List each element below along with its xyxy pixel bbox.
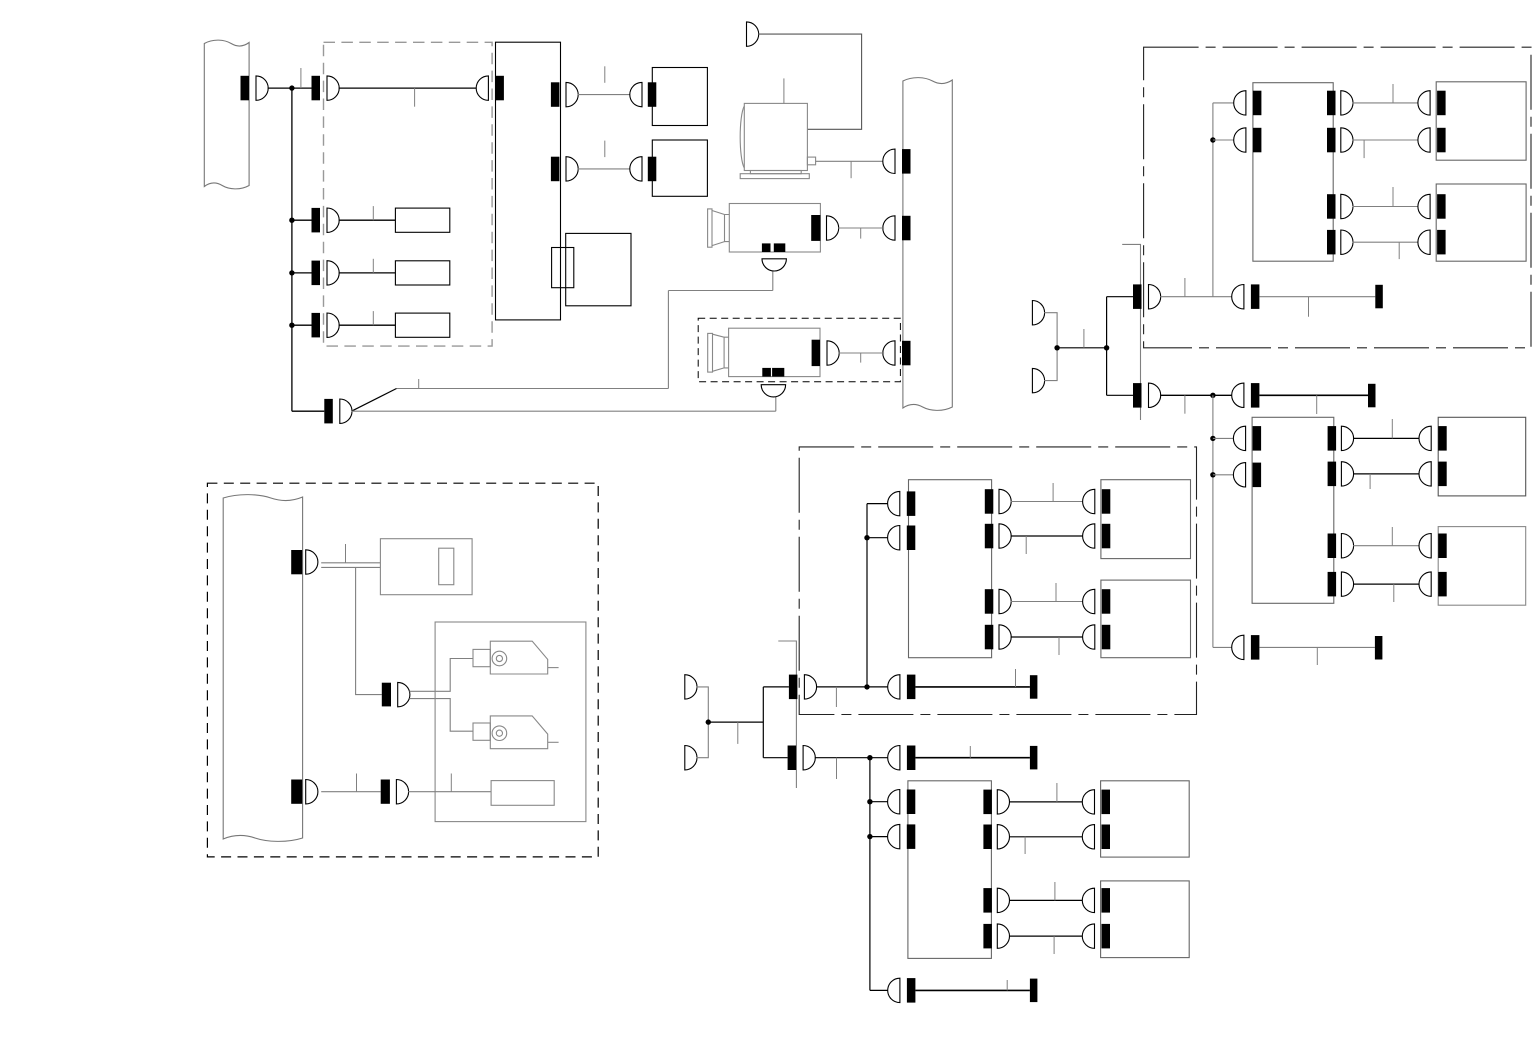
wire to TB4 pin1 [870,801,888,803]
junction TB2 pin2 [1210,472,1215,477]
connector TB1 right [1327,194,1336,219]
connector TB3 right [985,524,994,549]
stub above motor [783,78,785,103]
wire P1a to box [578,94,631,96]
wire tick [969,746,971,758]
wire tick [850,161,852,178]
junction node N [867,755,872,760]
wire M2 [815,757,890,759]
module box MC [395,261,449,285]
wire tick [860,353,862,363]
junction node G [1104,345,1109,350]
connector J1 on trunk W1 [241,76,250,101]
wire tick [1056,783,1058,802]
connector M1a (branch) [789,675,798,700]
wire tick [604,66,606,83]
connector Y2b [1251,383,1260,408]
wire T2 to sensor S1 [409,659,473,692]
wire to TB2 pin1 [1213,437,1234,439]
connector TB2 right [1328,462,1337,487]
junction TB2 pin1 [1210,436,1215,441]
wire TB1 to box BB pin1 [1353,206,1419,208]
connector on BC pin1 [1438,426,1447,451]
connector TB3 right [985,625,994,650]
connector TB1 left pin1 [1253,91,1262,116]
wire node A to connector J4 [292,410,324,412]
cable trunk W1 (torn bus bar, top left) [204,40,249,189]
wire TB4 to box BG pin1 [1009,801,1083,803]
wire tick [1398,242,1400,259]
wire to TB3 pin1 [867,503,888,505]
device box BG [1101,781,1190,857]
terminal lug M1 [1030,675,1038,699]
wire tick [345,544,347,563]
wire CAM1 to trunk W2 [838,227,884,229]
wire tick [1053,936,1055,954]
bus node G vertical [1106,297,1108,396]
wire T2 to sensor S2 [409,699,473,732]
junction node L [864,684,869,689]
terminal box TB2 [1252,417,1334,603]
cable M2 tail [915,757,1030,759]
wire TB4 to box BG pin2 [1009,836,1083,838]
device box BB [1436,184,1526,261]
connector TB1 left pin2 [1253,128,1262,153]
cable trunk W2 (torn bus bar, top middle-right) [903,78,952,411]
bus node H down [1212,395,1214,647]
wire tick [1052,483,1054,502]
wire tick [372,206,374,220]
wire P1b to box [578,168,631,170]
wire to TB2 pin2 [1213,474,1234,476]
device box BH [1101,881,1190,958]
dashed harness boundary (gray) [324,42,493,346]
connector T2 [382,683,391,707]
CAM1 bottom contact [762,243,771,252]
device box BC [1438,417,1526,496]
wire TB1 to box BA pin1 [1353,102,1419,104]
screen line S1 [1122,244,1140,420]
terminal box TB1 [1253,83,1333,262]
device box BA [1436,82,1526,160]
connector on BG pin2 [1102,825,1111,850]
connector Y3 [1251,635,1260,660]
wire tick [835,687,837,707]
wire TB3 to box BE pin1 [1011,501,1083,503]
connector K2 on trunk W2 [902,216,911,241]
connector M3 [907,978,916,1003]
connector on BF pin1 [1102,589,1111,614]
connector on BD pin1 [1438,534,1447,559]
wire to TB4 pin2 [870,836,888,838]
wire node K to branch M2 [763,757,787,759]
wire tick [1006,980,1008,990]
wire tick [1054,882,1056,900]
wire tick [1392,187,1394,207]
wire CAM2 to trunk W2 [839,352,884,354]
module box MD [395,313,449,337]
connector TB4 left pin1 [907,790,916,815]
wire J1 to J2 [268,87,312,89]
connector on BH pin2 [1102,924,1111,949]
wire F1 [1044,313,1057,348]
cable Y3 tail [1259,646,1375,648]
connector TB3 right [985,589,994,614]
junction TB4 pin1 [867,799,872,804]
connector on box P1a [648,82,657,107]
wire bus node A down [291,88,293,411]
connector on BB pin1 [1437,194,1446,219]
cable Y2 tail [1259,394,1368,396]
wire F to node G [1057,347,1107,349]
wire F3 [697,687,709,722]
wire TB3 to box BF pin2 [1011,636,1083,638]
wire tick [737,722,739,744]
wire tick [1392,84,1394,103]
wire F2 [1044,348,1057,381]
module box MB [395,208,449,232]
wire tick [1391,419,1393,438]
wire JC to module [339,272,396,274]
camera CAM2 body [708,328,820,376]
device box BD [1438,527,1526,606]
wire tick [1393,584,1395,602]
CAM2 side plug [827,341,839,365]
device box BE [1101,480,1191,559]
wire tick [450,774,452,792]
panel box P1 [496,42,561,320]
CAM2 bottom contact [762,368,771,377]
connector TB2 right [1328,426,1337,451]
connector TB1 right [1327,230,1336,255]
wire JB to module [339,219,396,221]
wire tick [1055,583,1057,602]
terminal box TB3 [909,480,992,658]
wire tick [1391,527,1393,546]
connector on BF pin2 [1102,625,1111,650]
wire to TB1 pin 2 [1213,139,1234,141]
connector on BB pin2 [1437,230,1446,255]
junction F2 [706,719,711,724]
wire tick [372,311,374,325]
connector TB2 right [1328,572,1337,597]
connector M1b [907,675,916,700]
wire node D to connector [292,324,312,326]
bus node N down [869,758,871,991]
wire tick [1025,536,1027,554]
sensor S1 [473,641,559,674]
dashed boundary around CAM2 [698,318,900,382]
wire tick [1083,329,1085,348]
dash-dot zone boundary Z1 (top right) [1144,47,1531,348]
feed-through block FT1 [552,248,574,288]
wire tick [1184,395,1186,413]
device box D1 [652,68,707,126]
connector on BH pin1 [1102,888,1111,913]
wire to TB3 pin2 [867,537,888,539]
wire node B to connector [292,219,312,221]
device box BF [1101,580,1191,658]
plug F4 (lone half-connector) [685,746,697,770]
wire into CAM1 bottom plug [772,271,774,290]
wire pair T1 to KP (a) [321,562,380,564]
wire tick [1024,837,1026,854]
wire F2 to node K [708,721,763,723]
wire tick [860,228,862,239]
wire tick [1058,637,1060,655]
dashed cabinet boundary (bottom left) [207,483,598,857]
wire bottom branch [870,989,889,991]
wire TB1 to box BB pin2 [1353,241,1419,243]
connector JD [312,313,321,338]
wire Y3 [1213,646,1234,648]
wire TB2 to box BC pin1 [1353,437,1419,439]
connector P1a on panel P1 [551,82,560,107]
wire MT1 to trunk W2 [816,160,885,162]
wire pair T1 to KP (b) [321,566,380,568]
connector M2b [907,746,916,771]
connector K3 on trunk W2 [902,341,911,366]
wire Y2 [1160,394,1234,396]
CAM2 side contact [812,340,820,366]
wire tick [414,88,416,107]
wire tick [1316,647,1318,665]
connector on BC pin2 [1438,462,1447,487]
device box D2 [652,140,707,196]
connector on box P1b [648,157,657,182]
wire node C to connector [292,272,312,274]
wire J4 diagonal branch [352,389,397,412]
wire F4 [697,722,709,758]
wire tick [418,379,420,389]
connector TB4 right [983,790,992,815]
connector TB4 left pin2 [907,824,916,849]
terminal lug Y3 [1375,636,1383,660]
CAM1 side plug [827,216,839,240]
junction node B [289,218,294,223]
wire node K to branch M1 [763,686,789,688]
connector on BE pin1 [1102,489,1111,514]
wire Y1 [1160,296,1234,298]
connector TB3 right [985,489,994,514]
wire tick [1184,278,1186,297]
connector TB1 right [1327,128,1336,153]
junction node H [1210,393,1215,398]
connector P1b on panel P1 [551,157,560,182]
equipment box EQ [435,622,586,822]
junction TB1 pin 2 [1210,137,1215,142]
wire J4 to camera CAM2 [352,410,776,412]
wire tick [356,774,358,792]
wire node G to branch Y1 [1107,296,1133,298]
cable trunk W3 (torn bus bar, bottom left) [223,495,302,842]
cable Y1 tail [1259,296,1375,298]
wire to CAM1 bottom plug [668,290,772,292]
wire M1 [816,686,889,688]
wire tick [300,68,302,88]
connector TB4 right [983,924,992,949]
junction box JB1 [566,233,631,305]
connector J3 on panel P1 [495,76,504,101]
module box MN [491,781,554,806]
wire riser to CAM2 bottom plug [775,396,777,411]
wire JD to module [339,324,396,326]
wire TB2 to box BD pin1 [1353,545,1419,547]
keypad box KP [380,539,472,595]
connector M2a (branch) [788,746,797,771]
terminal box TB4 [908,781,992,959]
junction F [1054,345,1059,350]
connector Y1b [1251,284,1260,309]
connector TB3 left pin1 [907,491,916,516]
screen line S2 [778,641,796,788]
junction node C [289,270,294,275]
wire riser to CAM1 [667,291,669,389]
CAM1 bottom plug [762,259,786,271]
connector TB2 right [1328,534,1337,559]
wire branch down to connector T2 [356,567,382,694]
wire T3 to T4 [321,791,381,793]
connector JC [312,261,321,286]
connector Y1a (branch) [1133,284,1142,309]
bus riser to TB1 [1212,103,1214,297]
wire TB1 to box BA pin2 [1353,139,1419,141]
cable M1 tail [915,686,1030,688]
wire tick [836,758,838,779]
plug F1 (lone half-connector) [1032,301,1044,325]
connector T1 on trunk W3 [291,550,302,574]
wire TB4 to box BH pin2 [1009,935,1083,937]
wire tick [1369,474,1371,489]
connector K1 on trunk W2 (over trunk) [902,149,911,174]
junction TB3 pin2 [864,535,869,540]
camera CAM1 body [708,204,821,253]
terminal lug Y1 [1375,285,1383,309]
bus riser to TB3 [866,504,868,687]
wire node G to branch Y2 [1107,394,1133,396]
wire to camera CAM1 [397,388,669,390]
wire TB3 to box BE pin2 [1011,535,1083,537]
wire TB4 to box BH pin1 [1009,899,1083,901]
wire tick [1308,297,1310,317]
terminal lug Y2 [1368,384,1376,408]
dash-dot zone boundary Z2 (middle) [799,447,1196,715]
connector TB2 left pin1 [1253,426,1262,451]
junction node D [289,323,294,328]
terminal lug M2 [1030,746,1038,770]
junction node A [289,85,294,90]
connector on BE pin2 [1102,524,1111,549]
sensor S2 [473,716,559,749]
cable M3 tail [915,989,1030,991]
terminal lug M3 [1030,979,1038,1003]
connector on BD pin2 [1438,572,1447,597]
CAM2 bottom plug [761,385,785,397]
connector J2 [312,76,321,101]
connector J4 (camera feed) [324,399,333,424]
wire tick [1316,395,1318,414]
motor MT1 body [740,103,815,178]
wire tick [604,141,606,158]
connector T4 [381,780,390,804]
connector Y2a (branch) [1133,383,1142,408]
wire TB2 to box BC pin2 [1353,473,1419,475]
connector on BA pin2 [1437,128,1446,153]
wire J2 to J3 (row A) [339,87,477,89]
connector T3 on trunk W3 [291,780,302,804]
connector TB4 right [983,825,992,850]
connector JB [312,208,321,233]
wire tick [1015,669,1017,687]
keypad display [439,548,454,585]
wire tick [372,259,374,273]
wire tick [1363,140,1365,158]
plug F3 (lone half-connector) [685,675,697,699]
CAM1 side contact [811,215,820,241]
connector TB3 left pin2 [907,526,916,551]
wire to TB1 pin 1 [1213,102,1234,104]
wire TB2 to box BD pin2 [1353,583,1419,585]
connector on BA pin1 [1437,91,1446,116]
connector on BG pin1 [1102,790,1111,815]
connector TB2 left pin2 [1253,463,1262,488]
wire T4 to module MN [408,791,491,793]
junction TB4 pin2 [867,834,872,839]
plug PD1 (lone half-connector, top middle) [747,22,759,46]
connector TB4 right [983,888,992,913]
connector TB1 right [1327,91,1336,116]
wire TB3 to box BF pin1 [1011,601,1083,603]
wire PD1 to motor MT1 [758,34,861,129]
plug F2 (lone half-connector) [1032,368,1044,392]
bus node K vertical [762,687,764,758]
